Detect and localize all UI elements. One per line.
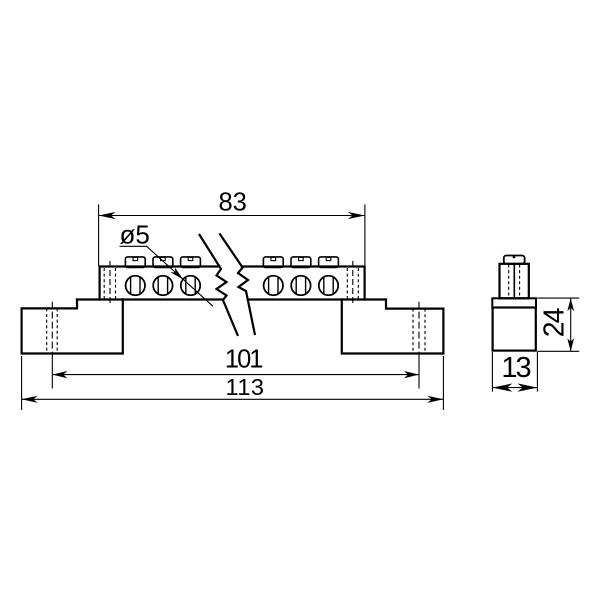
dimension 113 left extension line xyxy=(21,356,23,410)
break line left xyxy=(199,234,238,336)
clamp 4 xyxy=(263,257,283,268)
left foot hole hidden lines xyxy=(47,308,58,353)
diameter leader arrow xyxy=(170,267,183,279)
svg-text:13: 13 xyxy=(501,352,530,384)
screw 5 xyxy=(291,276,310,295)
diameter leader line xyxy=(120,246,214,306)
screw 3 xyxy=(181,276,200,295)
screw 1 xyxy=(126,276,145,295)
svg-text:113: 113 xyxy=(226,374,265,400)
dimension 83 right extension line xyxy=(364,204,366,266)
screw 2 xyxy=(153,276,172,295)
dimension 101 left arrow xyxy=(52,371,67,378)
dimension 13 left extension line xyxy=(491,352,493,392)
svg-text:24: 24 xyxy=(538,307,570,337)
svg-text:83: 83 xyxy=(219,188,247,216)
side view screw shaft hidden line left xyxy=(508,265,510,298)
clamp 5 xyxy=(291,257,311,268)
side view screw cap slot tick xyxy=(513,256,516,259)
dimension 113 left arrow xyxy=(22,396,38,403)
busbar right end hidden hole xyxy=(347,268,358,299)
screw 6 xyxy=(319,276,338,295)
dimension 83 right arrow xyxy=(348,212,365,219)
dimension 24 line xyxy=(570,298,572,351)
side view screw shaft xyxy=(500,264,529,299)
side view screw cap xyxy=(504,256,525,264)
dimension 113 right arrow xyxy=(427,396,443,403)
dimension 13 left arrow xyxy=(492,383,512,391)
dimension 113 right extension line xyxy=(442,356,444,410)
svg-text:101: 101 xyxy=(225,346,262,374)
screw 4 xyxy=(264,276,283,295)
dimension 24 bottom arrow xyxy=(567,338,574,351)
busbar left end hidden hole xyxy=(104,268,115,299)
right foot hole hidden lines xyxy=(413,309,425,354)
side view screw shaft center line xyxy=(513,265,515,298)
busbar body right section outline xyxy=(242,267,386,300)
dimension 83 left extension line xyxy=(98,204,100,266)
left foot outline xyxy=(22,300,123,354)
clamp 2 xyxy=(153,257,173,268)
right foot outline xyxy=(342,300,444,354)
dimension 13 right arrow xyxy=(517,383,537,391)
svg-text:ø5: ø5 xyxy=(120,219,150,249)
side view main body xyxy=(493,308,536,351)
dimension 83 line xyxy=(99,215,365,217)
busbar left end center line xyxy=(109,261,111,306)
right foot hole center line xyxy=(418,302,420,354)
dimension 13 right extension line xyxy=(536,352,538,392)
clamp 6 xyxy=(319,257,339,268)
break line right xyxy=(219,233,255,335)
dimension 101 line xyxy=(52,374,419,376)
busbar right end center line xyxy=(352,261,354,306)
left foot hole center line xyxy=(51,302,53,354)
side view collar xyxy=(492,298,536,307)
clamp 1 xyxy=(125,257,145,268)
busbar body left section outline xyxy=(77,267,223,300)
dimension 24 bottom extension line xyxy=(537,350,579,352)
dimension 24 top arrow xyxy=(567,298,574,311)
side view screw shaft hidden line right xyxy=(519,265,521,298)
dimension 101 right arrow xyxy=(404,371,419,378)
dimension 83 left arrow xyxy=(99,212,116,219)
dimension 13 line xyxy=(492,387,537,389)
dimension 113 line xyxy=(22,398,444,400)
dimension 24 top extension line xyxy=(537,297,579,299)
clamp 3 xyxy=(181,257,201,268)
